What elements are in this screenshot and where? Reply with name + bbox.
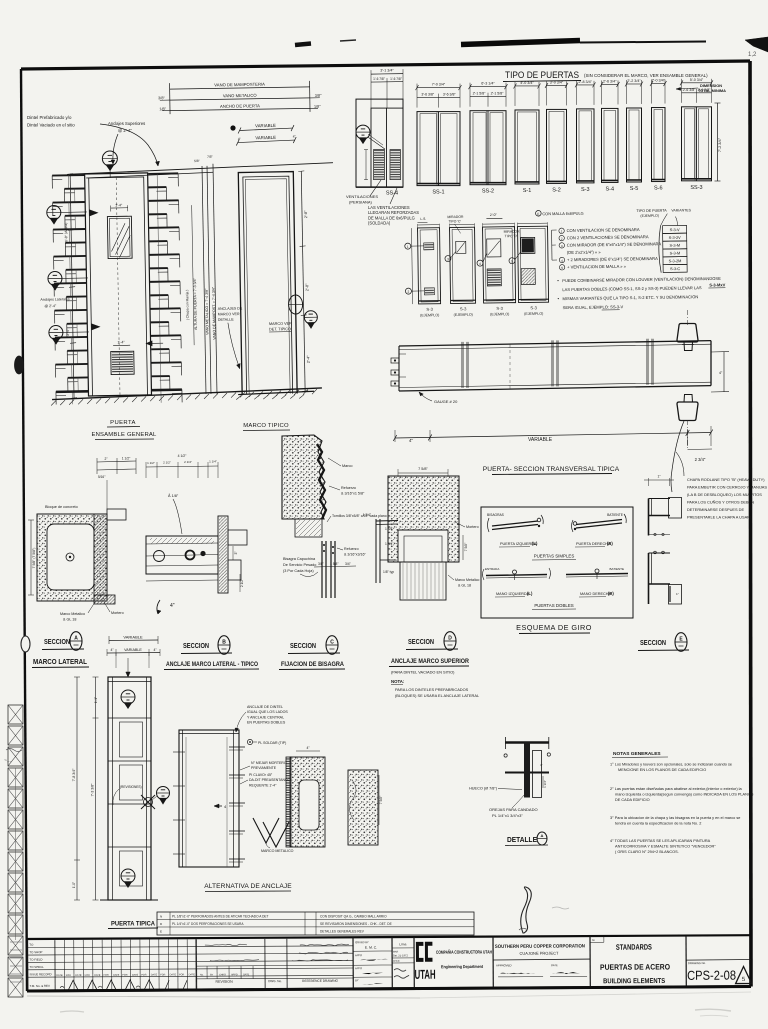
svg-text:SECCION: SECCION xyxy=(290,641,316,650)
svg-text:1,2: 1,2 xyxy=(748,52,757,58)
svg-text:EN PUERTAS DOBLES: EN PUERTAS DOBLES xyxy=(247,721,286,725)
svg-text:VARIABLE: VARIABLE xyxy=(255,135,276,140)
svg-text:Engineering Department: Engineering Department xyxy=(441,964,483,969)
svg-text:7 5/8": 7 5/8" xyxy=(464,542,468,551)
svg-text:5′-0 3/4": 5′-0 3/4" xyxy=(690,78,704,82)
svg-text:ALTERNATIVA DE ANCLAJE: ALTERNATIVA DE ANCLAJE xyxy=(204,883,292,890)
svg-text:PUERTAS SIMPLES: PUERTAS SIMPLES xyxy=(534,554,575,559)
svg-text:7′-2 3/4": 7′-2 3/4" xyxy=(717,137,722,152)
svg-text:GAUGE # 20: GAUGE # 20 xyxy=(434,399,458,404)
svg-text:& GL 18: & GL 18 xyxy=(458,584,471,588)
svg-text:MARCO TIPICO: MARCO TIPICO xyxy=(243,423,289,429)
svg-text:BY: BY xyxy=(210,973,214,976)
svg-text:FOR: FOR xyxy=(179,973,184,976)
svg-text:3′-6 3/8": 3′-6 3/8" xyxy=(421,93,435,97)
svg-text:1′-4": 1′-4" xyxy=(115,203,123,207)
svg-text:IGUAL QUE LOS LADOS: IGUAL QUE LOS LADOS xyxy=(247,710,288,714)
svg-text:PREVIAMENTE: PREVIAMENTE xyxy=(251,766,277,770)
svg-text:FIJACION DE BISAGRA: FIJACION DE BISAGRA xyxy=(281,661,344,668)
svg-text:& 3/16"x3/16": & 3/16"x3/16" xyxy=(344,553,366,557)
svg-text:S-3-V: S-3-V xyxy=(670,227,680,232)
svg-text:5/16": 5/16" xyxy=(98,475,105,479)
svg-text:E. M. C.: E. M. C. xyxy=(365,946,377,950)
svg-text:5: 5 xyxy=(561,266,563,270)
svg-text:DATE: DATE xyxy=(170,973,177,976)
svg-text:VARIABLE: VARIABLE xyxy=(528,437,553,443)
svg-text:ANCLAJE MARCO LATERAL - TIPICO: ANCLAJE MARCO LATERAL - TIPICO xyxy=(166,661,258,668)
svg-text:TO FIELD: TO FIELD xyxy=(29,958,42,962)
svg-text:1 1/2": 1 1/2" xyxy=(122,457,131,461)
svg-text:ISSUE RECORD: ISSUE RECORD xyxy=(30,972,52,976)
svg-text:4′-0 3/4": 4′-0 3/4" xyxy=(520,81,534,85)
svg-text:FOR: FOR xyxy=(66,974,71,977)
svg-text:4": 4" xyxy=(540,763,543,767)
svg-text:CHKD: CHKD xyxy=(393,961,400,963)
svg-text:Dintel Prefabricado y/o: Dintel Prefabricado y/o xyxy=(27,115,72,120)
svg-text:S-3-C: S-3-C xyxy=(670,266,680,271)
svg-text:MARCO VER: MARCO VER xyxy=(218,312,240,316)
svg-text:COMPAÑIA CONSTRUCTORA UTAH: COMPAÑIA CONSTRUCTORA UTAH xyxy=(436,948,493,954)
svg-text:B: B xyxy=(222,640,226,646)
svg-text:3′-6 3/8": 3′-6 3/8" xyxy=(443,93,457,97)
svg-text:DA-DIT PREASENTANDO: DA-DIT PREASENTANDO xyxy=(249,778,291,782)
svg-text:Dintel Vaciado en el sitio: Dintel Vaciado en el sitio xyxy=(27,123,75,128)
svg-text:MIRADOR: MIRADOR xyxy=(447,215,464,219)
svg-text:1 5/8": 1 5/8" xyxy=(330,562,339,566)
svg-text:1′-6 7/8": 1′-6 7/8" xyxy=(390,77,402,81)
svg-text:TO SHOP: TO SHOP xyxy=(29,950,42,954)
svg-text:( Chapa con Manija ): ( Chapa con Manija ) xyxy=(185,290,190,321)
svg-text:7 5/8" (7 5/8"): 7 5/8" (7 5/8") xyxy=(32,548,36,569)
svg-text:PARA EMBUTIR CON CERROJO Y MAN: PARA EMBUTIR CON CERROJO Y MANIJAS xyxy=(687,485,767,490)
svg-text:1 1/2": 1 1/2" xyxy=(147,461,155,465)
svg-text:(L): (L) xyxy=(527,591,533,596)
svg-text:VANO DE MAMPOSTERIA: VANO DE MAMPOSTERIA xyxy=(214,82,265,88)
svg-text:(R): (R) xyxy=(608,591,614,596)
svg-text:1′-6 7/8": 1′-6 7/8" xyxy=(373,77,385,81)
svg-text:E: E xyxy=(160,930,162,934)
svg-text:(L): (L) xyxy=(532,541,538,546)
svg-text:2′-0": 2′-0" xyxy=(490,213,498,217)
svg-text:5/8": 5/8" xyxy=(194,159,200,163)
svg-text:CPS-2-08: CPS-2-08 xyxy=(687,968,736,983)
svg-text:2′-8": 2′-8" xyxy=(304,210,308,218)
svg-text:3: 3 xyxy=(561,244,563,248)
svg-text:(REVISIONES): (REVISIONES) xyxy=(120,785,142,789)
svg-text:APPD: APPD xyxy=(355,953,362,957)
svg-text:(PERSIANA): (PERSIANA) xyxy=(349,200,373,205)
svg-text:@ 2′-4": @ 2′-4" xyxy=(118,128,132,133)
svg-text:mano izquierda o izquierda(seg: mano izquierda o izquierda(segun conveng… xyxy=(615,793,754,797)
svg-text:T.M. No. & REV: T.M. No. & REV xyxy=(30,984,50,988)
svg-text:S-3: S-3 xyxy=(426,307,433,312)
svg-text:Anclajes Superiores: Anclajes Superiores xyxy=(108,121,145,126)
svg-text:PARA LOS CUÑOS Y OTROS DEBEN: PARA LOS CUÑOS Y OTROS DEBEN xyxy=(687,500,754,505)
svg-text:2′-1 5/8": 2′-1 5/8" xyxy=(491,92,505,96)
svg-text:N° MEJAR MORTERO: N° MEJAR MORTERO xyxy=(251,761,287,765)
svg-text:FOR: FOR xyxy=(104,974,109,977)
svg-text:7 5/8": 7 5/8" xyxy=(379,795,383,804)
svg-text:ESQUEMA DE GIRO: ESQUEMA DE GIRO xyxy=(516,623,592,632)
svg-text:FOR: FOR xyxy=(85,974,90,977)
svg-text:CON MALLA 6x6/PULG: CON MALLA 6x6/PULG xyxy=(542,211,583,217)
svg-text:DATE: DATE xyxy=(56,974,63,977)
svg-text:E: E xyxy=(537,212,539,216)
svg-text:S-3-MxV: S-3-MxV xyxy=(709,282,725,287)
svg-text:2: 2 xyxy=(561,237,563,241)
svg-text:2′-8 3/4": 2′-8 3/4" xyxy=(579,80,593,84)
svg-text:2′-8": 2′-8" xyxy=(305,283,309,291)
svg-text:BATIENTE: BATIENTE xyxy=(610,567,624,571)
svg-text:5: 5 xyxy=(511,259,513,263)
svg-text:S-3-2V: S-3-2V xyxy=(669,235,682,240)
svg-text:2′-0 3/4": 2′-0 3/4" xyxy=(652,79,666,83)
svg-text:Set. 21-1972: Set. 21-1972 xyxy=(393,953,408,957)
svg-text:PUERTAS DE ACERO: PUERTAS DE ACERO xyxy=(600,962,670,971)
svg-text:S-3: S-3 xyxy=(530,305,537,310)
svg-text:DE CADA EDIFICIO: DE CADA EDIFICIO xyxy=(615,798,650,802)
svg-text:MIRADOR: MIRADOR xyxy=(504,230,521,234)
svg-text:NOTA:: NOTA: xyxy=(391,679,405,684)
svg-text:Marco: Marco xyxy=(342,464,353,468)
svg-text:ANCLAJE MARCO SUPERIOR: ANCLAJE MARCO SUPERIOR xyxy=(391,658,469,665)
svg-text:SE REVISARON DIMENSIONES - C: SE REVISARON DIMENSIONES - CHK - DET. DE xyxy=(320,922,392,926)
svg-text:VENTILACIONES: VENTILACIONES xyxy=(346,194,378,199)
svg-text:DRAWING No.: DRAWING No. xyxy=(688,961,706,965)
svg-text:(R): (R) xyxy=(607,541,613,546)
svg-text:TIPO 'C': TIPO 'C' xyxy=(448,219,461,223)
svg-text:REVISION: REVISION xyxy=(215,980,233,984)
svg-text:CON VENTILACION SE DENOMINARA: CON VENTILACION SE DENOMINARA xyxy=(567,227,640,233)
svg-text:A: A xyxy=(541,833,544,838)
svg-text:TIPO DE PUERTAS: TIPO DE PUERTAS xyxy=(505,70,579,80)
svg-text:APPD: APPD xyxy=(231,973,238,976)
svg-text:N: N xyxy=(160,915,162,919)
svg-text:Å 1/8": Å 1/8" xyxy=(168,493,179,498)
svg-text:FOR: FOR xyxy=(160,973,165,976)
svg-text:2′-2 3/4": 2′-2 3/4" xyxy=(627,79,641,83)
svg-text:2 1/2": 2 1/2" xyxy=(163,461,171,465)
svg-text:Lima: Lima xyxy=(399,942,406,946)
svg-text:C: C xyxy=(330,640,334,646)
svg-text:1′-0": 1′-0" xyxy=(72,882,76,888)
svg-text:Marco Metalico: Marco Metalico xyxy=(455,578,479,582)
svg-text:PRESENTARLE LA CHAPA A USAR): PRESENTARLE LA CHAPA A USAR) xyxy=(687,515,752,520)
svg-text:Mortero: Mortero xyxy=(111,611,124,615)
svg-text:( GRIS CLARO N° 294+2 BLANCOS: ( GRIS CLARO N° 294+2 BLANCOS. xyxy=(615,850,679,854)
svg-text:SS-1: SS-1 xyxy=(432,190,444,196)
svg-text:Bloque de concreto: Bloque de concreto xyxy=(45,505,78,509)
svg-text:3′-0 3/4": 3′-0 3/4" xyxy=(550,80,564,84)
svg-text:BATIENTE: BATIENTE xyxy=(607,513,624,517)
svg-text:STANDARDS: STANDARDS xyxy=(616,943,652,952)
svg-text:2: 2 xyxy=(408,290,410,294)
svg-text:TIPO DE PUERTA: TIPO DE PUERTA xyxy=(636,209,667,213)
svg-text:3/8": 3/8" xyxy=(318,562,325,566)
svg-text:2′-6 3/4": 2′-6 3/4" xyxy=(603,79,617,83)
svg-text:1 1/4": 1 1/4" xyxy=(209,460,217,464)
svg-text:7 5/8": 7 5/8" xyxy=(418,467,428,471)
svg-text:TO SPECL: TO SPECL xyxy=(30,965,45,969)
svg-text:1 3/4": 1 3/4" xyxy=(543,780,547,788)
svg-text:3/4": 3/4" xyxy=(345,562,352,566)
svg-text:CHAPA RODLANE TIPO "B" (HEAVY: CHAPA RODLANE TIPO "B" (HEAVY DUTY) xyxy=(687,477,765,482)
svg-text:SECCION: SECCION xyxy=(640,638,666,647)
svg-text:S-3-M: S-3-M xyxy=(670,250,681,255)
svg-text:ANCLAJE DE DINTEL: ANCLAJE DE DINTEL xyxy=(247,705,283,709)
svg-text:VARIANTES: VARIANTES xyxy=(671,208,691,212)
svg-text:2′-4": 2′-4" xyxy=(306,355,310,363)
svg-text:DATE: DATE xyxy=(94,974,101,977)
svg-text:NOTAS GENERALES: NOTAS GENERALES xyxy=(613,751,661,757)
svg-text:(PARA DINTEL VACIADO EN SITIO): (PARA DINTEL VACIADO EN SITIO) xyxy=(391,670,455,675)
svg-text:VARIABLE: VARIABLE xyxy=(124,648,142,652)
svg-text:PL 1/4"x1 3/4"x3": PL 1/4"x1 3/4"x3" xyxy=(492,813,523,818)
svg-text:7′-3 3/8": 7′-3 3/8" xyxy=(91,783,95,797)
svg-text:PL 1/4"x1′-0" DOS PERFORACIO: PL 1/4"x1′-0" DOS PERFORACIONES SE USARA xyxy=(172,922,244,926)
svg-text:S-1: S-1 xyxy=(523,188,532,194)
svg-text:tendra en cuenta la especific: tendra en cuenta la especificacion de la… xyxy=(615,822,701,826)
svg-text:ANCHO DE PUERTA: ANCHO DE PUERTA xyxy=(220,103,260,109)
svg-text:DATE: DATE xyxy=(189,973,196,976)
svg-text:(BLOQUES) SE USARA EL ANCLAJE: (BLOQUES) SE USARA EL ANCLAJE LATERAL xyxy=(395,693,480,698)
svg-text:(EJEMPLO): (EJEMPLO) xyxy=(640,214,659,218)
svg-text:3/8": 3/8" xyxy=(158,96,165,100)
svg-text:DETALLE: DETALLE xyxy=(218,318,234,322)
svg-text:& 3/16"x1 5/8": & 3/16"x1 5/8" xyxy=(341,492,365,496)
svg-text:MARCO METALICO: MARCO METALICO xyxy=(261,849,294,853)
svg-text:1: 1 xyxy=(407,245,409,249)
svg-text:+ VENTILACION DE MALLA: + VENTILACION DE MALLA » » xyxy=(567,264,627,270)
svg-text:S-3-2M: S-3-2M xyxy=(669,258,682,263)
svg-text:1′-1": 1′-1" xyxy=(94,697,98,703)
svg-text:A: A xyxy=(74,636,78,642)
svg-text:S-2: S-2 xyxy=(552,187,561,193)
svg-text:S-3: S-3 xyxy=(581,187,590,193)
svg-text:ENSAMBLE GENERAL: ENSAMBLE GENERAL xyxy=(91,432,157,438)
svg-text:FOR: FOR xyxy=(122,974,127,977)
svg-text:S-3: S-3 xyxy=(460,306,467,311)
svg-text:MENCIONE EN LOS PLANOS DE: MENCIONE EN LOS PLANOS DE CADA EDIFICIO xyxy=(618,768,706,772)
svg-text:ANCLAJES DE: ANCLAJES DE xyxy=(218,306,243,310)
svg-text:4: 4 xyxy=(479,262,481,266)
svg-text:SECCION: SECCION xyxy=(44,637,70,646)
svg-text:TIPO 'D': TIPO 'D' xyxy=(505,234,518,238)
svg-text:& GL 18: & GL 18 xyxy=(63,618,76,622)
svg-text:CUAJONE PROJECT: CUAJONE PROJECT xyxy=(519,951,558,956)
svg-text:(LA B DE DESBLOQUEO) LOS MUERT: (LA B DE DESBLOQUEO) LOS MUERTOS xyxy=(687,492,762,497)
svg-text:2 1/4": 2 1/4" xyxy=(184,460,192,464)
svg-text:Anclajes Laterales: Anclajes Laterales xyxy=(40,297,70,302)
svg-text:4": 4" xyxy=(238,137,241,141)
svg-text:MANO IZQUIERDA: MANO IZQUIERDA xyxy=(496,592,530,596)
svg-text:3/8": 3/8" xyxy=(315,94,322,98)
svg-text:PUERTAS DOBLES: PUERTAS DOBLES xyxy=(534,603,573,608)
svg-text:1° Los Miradores y louvers son: 1° Los Miradores y louvers son opcionale… xyxy=(610,763,732,767)
svg-text:(SOLDADA): (SOLDADA) xyxy=(368,221,391,226)
svg-text:6′-8" (Altura): 6′-8" (Altura) xyxy=(64,223,68,242)
svg-text:SS-4: SS-4 xyxy=(386,191,398,197)
svg-text:BISAGRAS: BISAGRAS xyxy=(487,513,505,517)
svg-text:Tornillos 3/8"x5/8" c/23" cad: Tornillos 3/8"x5/8" c/23" cada plano xyxy=(332,514,387,518)
svg-text:Marco Metalico: Marco Metalico xyxy=(60,612,85,616)
svg-text:4": 4" xyxy=(170,603,175,609)
svg-text:REQUENTE 1′-4": REQUENTE 1′-4" xyxy=(249,783,277,787)
svg-text:MANO DERECHA: MANO DERECHA xyxy=(580,592,611,596)
svg-text:7′-8 3/4": 7′-8 3/4" xyxy=(72,768,76,782)
svg-text:PUERTA DERECHA: PUERTA DERECHA xyxy=(576,542,611,546)
svg-text:S-3-M: S-3-M xyxy=(669,243,680,248)
svg-text:PUERTA- SECCION TRANSVERSAL T: PUERTA- SECCION TRANSVERSAL TIPICA xyxy=(483,466,620,473)
svg-text:De Servicio Pesado: De Servicio Pesado xyxy=(283,563,316,567)
svg-text:VARIABLE: VARIABLE xyxy=(123,635,143,640)
svg-text:VARIABLE: VARIABLE xyxy=(255,123,276,128)
svg-text:4° TODAS LAS PUERTAS SE LES: 4° TODAS LAS PUERTAS SE LES APLICARAN PI… xyxy=(610,839,711,843)
svg-text:DETERMINARSE DESPUES DE: DETERMINARSE DESPUES DE xyxy=(687,507,744,512)
svg-text:2′-1 5/8": 2′-1 5/8" xyxy=(473,92,487,96)
svg-text:DATE: DATE xyxy=(151,973,158,976)
svg-text:D: D xyxy=(448,636,452,642)
svg-text:FOR: FOR xyxy=(141,974,146,977)
svg-text:TOTAL MINIMA: TOTAL MINIMA xyxy=(698,88,726,93)
svg-text:DATE: DATE xyxy=(243,973,250,976)
svg-text:DATE: DATE xyxy=(75,974,82,977)
svg-text:SECCION: SECCION xyxy=(183,641,209,650)
svg-text:ANTICORROSIVA Y ESMALTE SIN: ANTICORROSIVA Y ESMALTE SINTETICO "VENCE… xyxy=(615,845,716,849)
svg-text:(DE 2′x2′x1/4") »: (DE 2′x2′x1/4") » » xyxy=(567,249,601,254)
svg-text:BUILDING ELEMENTS: BUILDING ELEMENTS xyxy=(603,978,665,985)
svg-text:VANO METALICO = 7′-4 3/8": VANO METALICO = 7′-4 3/8" xyxy=(205,288,210,335)
svg-text:4 1/2": 4 1/2" xyxy=(178,454,188,458)
svg-text:4": 4" xyxy=(409,438,413,443)
svg-text:DETALLE: DETALLE xyxy=(507,837,537,844)
svg-text:DATE: DATE xyxy=(113,974,120,977)
svg-text:(EJEMPLO): (EJEMPLO) xyxy=(490,312,509,316)
svg-text:MARCO LATERAL: MARCO LATERAL xyxy=(33,657,88,666)
svg-text:S-6: S-6 xyxy=(654,186,663,192)
svg-text:VANO METALICO: VANO METALICO xyxy=(223,93,258,99)
svg-text:PUERTA TIPICA: PUERTA TIPICA xyxy=(111,921,155,928)
svg-text:1: 1 xyxy=(561,229,563,233)
svg-text:MAR: MAR xyxy=(393,950,399,953)
svg-text:S-3: S-3 xyxy=(496,306,503,311)
svg-text:ENTRADA: ENTRADA xyxy=(485,567,499,571)
svg-text:DATE: DATE xyxy=(551,963,558,967)
svg-text:SS-3: SS-3 xyxy=(690,185,702,191)
svg-text:1": 1" xyxy=(676,592,679,596)
svg-text:DET. TIPICO: DET. TIPICO xyxy=(269,327,291,331)
svg-text:7′-0 3/4": 7′-0 3/4" xyxy=(432,83,446,87)
svg-text:BY: BY xyxy=(355,978,359,982)
svg-text:2° Las puertas estan diseñadas: 2° Las puertas estan diseñadas para abat… xyxy=(610,787,743,791)
svg-text:UTAH: UTAH xyxy=(415,967,436,982)
svg-text:OREJAS PARA CANDADO: OREJAS PARA CANDADO xyxy=(489,807,538,812)
svg-text:1/8" typ: 1/8" typ xyxy=(383,570,394,574)
svg-text:6′-3 1/4": 6′-3 1/4" xyxy=(481,82,495,86)
svg-text:SOUTHERN PERU COPPER CORPORATI: SOUTHERN PERU COPPER CORPORATION xyxy=(495,943,586,950)
svg-text:4: 4 xyxy=(561,259,563,263)
svg-text:ISSUED BY: ISSUED BY xyxy=(355,940,369,944)
svg-text:L.S.: L.S. xyxy=(420,217,426,221)
svg-text:APPD: APPD xyxy=(355,966,362,970)
svg-text:Refuerzo: Refuerzo xyxy=(344,547,359,551)
svg-text:SS-2: SS-2 xyxy=(482,189,494,195)
svg-text:2′-4": 2′-4" xyxy=(66,328,70,336)
svg-text:@ 2′-4": @ 2′-4" xyxy=(44,304,57,308)
svg-text:Y ANCLAJE CENTRAL: Y ANCLAJE CENTRAL xyxy=(247,715,284,719)
svg-text:(EJEMPLO): (EJEMPLO) xyxy=(524,312,543,316)
svg-text:(3 Por Cada Hoja): (3 Por Cada Hoja) xyxy=(283,569,314,573)
svg-text:CHKD: CHKD xyxy=(219,973,226,976)
svg-text:3′-1 3/4": 3′-1 3/4" xyxy=(380,69,394,73)
svg-text:1′-4": 1′-4" xyxy=(117,340,125,344)
svg-text:DATE: DATE xyxy=(132,974,139,977)
svg-text:~,..: ~,.. xyxy=(4,758,11,764)
svg-text:No.: No. xyxy=(200,974,204,977)
svg-text:PL SOLDAR (TIP): PL SOLDAR (TIP) xyxy=(258,741,286,745)
svg-text:Bisagra Capuchina: Bisagra Capuchina xyxy=(283,557,316,561)
svg-text:3° Para la ubicacion de la: 3° Para la ubicacion de la chapa y las b… xyxy=(610,816,740,820)
svg-text:DETALLES GENERALES REV: DETALLES GENERALES REV xyxy=(320,930,365,934)
svg-text:MARCO VER: MARCO VER xyxy=(269,322,292,326)
svg-text:(EJEMPLO): (EJEMPLO) xyxy=(420,313,439,317)
svg-text:SERA IGUAL, EJEMPLO: SS-3-V: SERA IGUAL, EJEMPLO: SS-3-V xyxy=(563,304,624,310)
svg-text:3: 3 xyxy=(447,257,449,261)
svg-text:PARA LOS DINTELES PREFABRICADO: PARA LOS DINTELES PREFABRICADOS xyxy=(395,687,469,692)
svg-text:HUECO (Ø 7/8"): HUECO (Ø 7/8") xyxy=(469,787,498,791)
svg-text:APPROVED: APPROVED xyxy=(496,963,512,967)
svg-text:4": 4" xyxy=(293,135,296,139)
svg-text:7/8": 7/8" xyxy=(207,155,213,159)
svg-text:(EJEMPLO): (EJEMPLO) xyxy=(454,313,473,317)
svg-text:PUERTA: PUERTA xyxy=(110,420,136,426)
svg-text:PI CLAVO³ 45°: PI CLAVO³ 45° xyxy=(249,773,273,777)
svg-text:SECCION: SECCION xyxy=(408,637,434,646)
svg-text:2 1/2": 2 1/2" xyxy=(240,579,244,587)
svg-text:Mortero: Mortero xyxy=(466,525,479,529)
svg-text:S-5: S-5 xyxy=(630,186,639,192)
svg-text:DWG. No.: DWG. No. xyxy=(268,979,282,983)
svg-text:REFERENCE DRAWING: REFERENCE DRAWING xyxy=(302,979,338,983)
svg-text:2 3/4": 2 3/4" xyxy=(695,457,706,462)
svg-text:PL 1/8"x1′-0" PERFORADOS ANTE: PL 1/8"x1′-0" PERFORADOS ANTES DE ATICAR… xyxy=(172,915,269,919)
svg-text:S-4: S-4 xyxy=(605,186,614,192)
svg-text:1 3/4": 1 3/4" xyxy=(363,513,371,517)
svg-text:Refuerzo: Refuerzo xyxy=(341,486,356,490)
svg-text:CON DISPOSIT QA G., CAMBIO MAL: CON DISPOSIT QA G., CAMBIO MALL ARRIO xyxy=(320,915,387,919)
